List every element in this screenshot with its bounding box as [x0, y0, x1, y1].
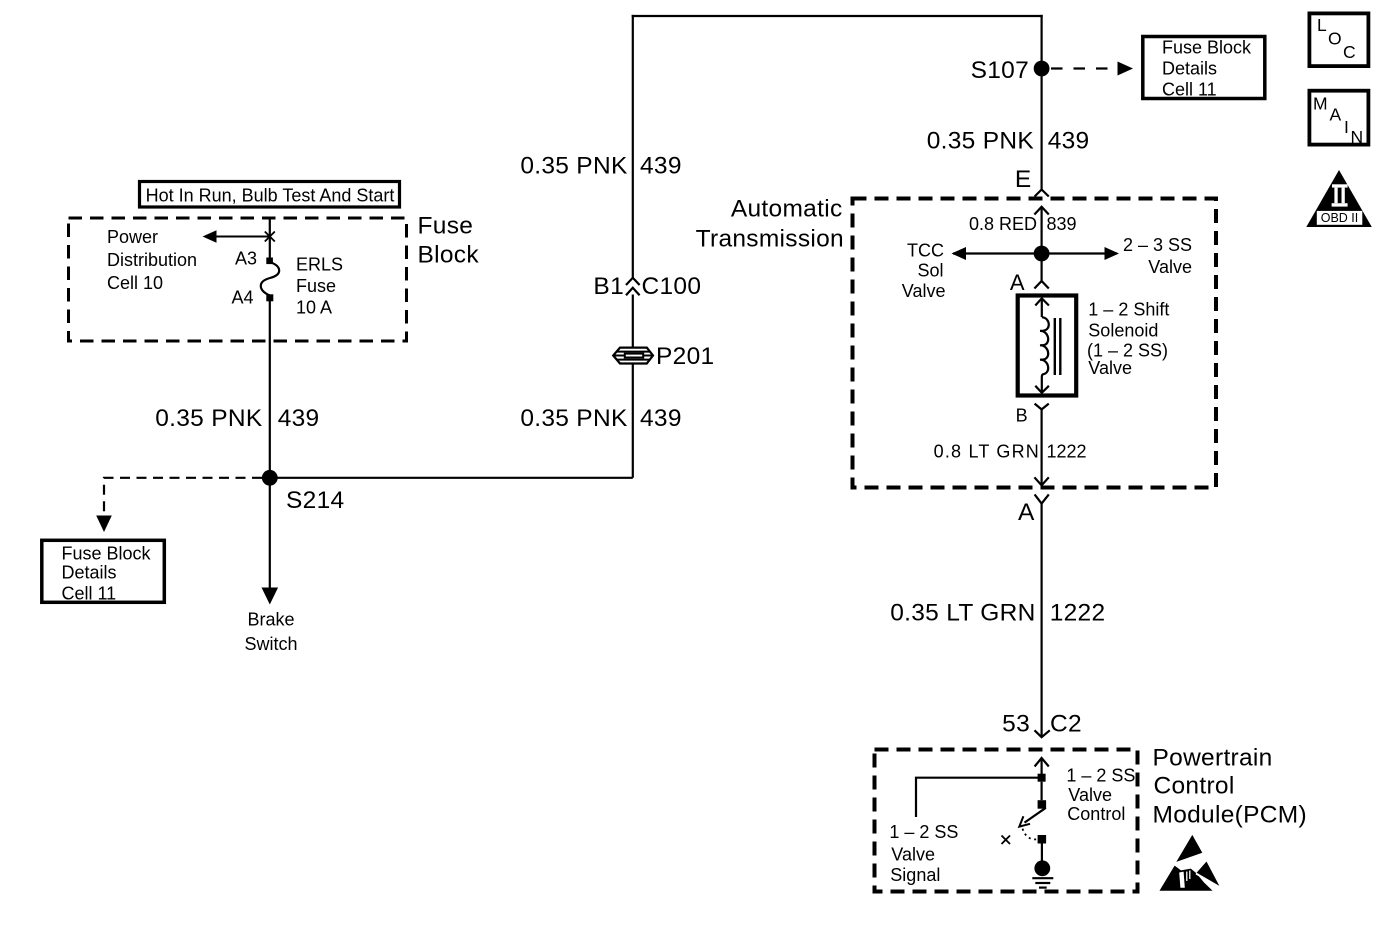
dashed arrow S107 to fuse block details	[1051, 62, 1133, 76]
middle riser wire upper segment	[632, 15, 634, 278]
switch travel dotted arc	[1023, 829, 1038, 840]
automatic transmission label	[696, 196, 844, 253]
PCM dashed box	[875, 750, 1138, 892]
svg-text:Fuse: Fuse	[418, 213, 474, 240]
svg-text:439: 439	[1048, 128, 1090, 155]
svg-text:Transmission: Transmission	[696, 226, 844, 253]
wire label 0.35 PNK 439 (left)	[155, 405, 319, 432]
svg-text:1222: 1222	[1050, 600, 1106, 627]
power distribution reference text	[107, 227, 197, 293]
svg-text:A4: A4	[231, 288, 253, 308]
arrow to TCC Sol Valve	[902, 241, 1042, 302]
svg-text:439: 439	[640, 405, 682, 432]
svg-text:S107: S107	[971, 57, 1029, 84]
switch terminal lower	[1038, 835, 1047, 844]
terminal A (transmission exit)	[1018, 494, 1049, 526]
connector C100 chevrons	[593, 273, 701, 300]
wire S214 down to brake switch	[262, 485, 279, 605]
svg-text:Valve: Valve	[1068, 785, 1112, 805]
svg-text:Valve: Valve	[1148, 257, 1192, 277]
solenoid box 1-2 shift solenoid	[1018, 296, 1076, 396]
wire from fuse block top to fuse terminal A3	[269, 218, 271, 259]
1-2 SS valve control label	[1066, 766, 1135, 825]
svg-text:S214: S214	[286, 487, 344, 514]
brake switch label	[244, 610, 297, 655]
svg-text:0.35 PNK: 0.35 PNK	[520, 405, 628, 432]
top horizontal wire	[632, 15, 1043, 17]
fuse block label	[418, 213, 480, 269]
splice S214	[262, 470, 345, 514]
svg-text:0.35 PNK: 0.35 PNK	[520, 153, 628, 180]
grommet P201	[613, 343, 714, 370]
LOC icon	[1309, 13, 1368, 66]
svg-text:Cell 11: Cell 11	[1162, 80, 1217, 100]
wire A to PCM	[1040, 504, 1042, 737]
svg-text:Solenoid: Solenoid	[1088, 321, 1158, 341]
ground	[1032, 860, 1053, 887]
svg-text:Signal: Signal	[890, 865, 940, 885]
svg-text:Valve: Valve	[1088, 358, 1132, 378]
svg-text:B1: B1	[593, 273, 624, 300]
switch open contact x	[1002, 836, 1011, 845]
svg-text:C2: C2	[1050, 711, 1082, 738]
svg-text:439: 439	[640, 153, 682, 180]
middle riser wire between C100 and P201	[632, 295, 634, 348]
svg-text:Module(PCM): Module(PCM)	[1153, 802, 1307, 829]
svg-text:1222: 1222	[1047, 442, 1087, 462]
power distribution arrow	[203, 230, 275, 242]
terminal E	[1015, 166, 1049, 197]
terminal A4	[231, 288, 273, 308]
svg-text:A: A	[1018, 499, 1035, 526]
svg-text:Switch: Switch	[244, 634, 297, 654]
svg-text:0.8 LT GRN: 0.8 LT GRN	[934, 442, 1040, 462]
svg-text:A: A	[1010, 270, 1025, 295]
wire label 0.8 RED 839	[969, 214, 1077, 234]
wire junction to terminal A	[1040, 254, 1042, 281]
svg-text:I: I	[1344, 117, 1349, 137]
svg-text:Control: Control	[1067, 804, 1125, 824]
svg-text:B: B	[1016, 406, 1028, 426]
svg-text:M: M	[1313, 94, 1328, 114]
wire fuse A4 to splice S214	[269, 301, 271, 478]
svg-text:OBD II: OBD II	[1321, 211, 1359, 225]
svg-text:Fuse Block: Fuse Block	[62, 544, 152, 564]
fuse block dashed box	[69, 218, 407, 341]
fuse block details box (left)	[42, 540, 165, 603]
splice S107	[971, 57, 1050, 84]
solenoid label	[1087, 300, 1169, 379]
svg-text:Hot In Run, Bulb Test And Star: Hot In Run, Bulb Test And Start	[146, 186, 395, 206]
svg-text:1 – 2 SS: 1 – 2 SS	[889, 822, 958, 842]
svg-text:N: N	[1351, 127, 1364, 147]
switch terminal upper	[1038, 800, 1047, 809]
wire label 0.35 PNK 439 (middle lower)	[520, 405, 681, 432]
svg-text:Details: Details	[1162, 59, 1217, 79]
svg-text:0.35 LT GRN: 0.35 LT GRN	[890, 600, 1035, 627]
powertrain control module label	[1153, 745, 1307, 829]
svg-text:Valve: Valve	[891, 845, 935, 865]
svg-text:Cell 11: Cell 11	[62, 584, 117, 604]
right riser wire	[1040, 15, 1042, 190]
svg-text:L: L	[1317, 15, 1327, 35]
svg-text:Block: Block	[418, 242, 480, 269]
svg-text:C100: C100	[642, 273, 702, 300]
svg-text:1 – 2 Shift: 1 – 2 Shift	[1088, 300, 1169, 320]
svg-text:Valve: Valve	[902, 281, 946, 301]
automatic transmission dashed box	[853, 199, 1217, 488]
fuse label ERLS Fuse 10 A	[296, 255, 343, 318]
terminal 53 C2	[1002, 711, 1082, 738]
solenoid coil	[1040, 317, 1049, 377]
OBD II icon	[1306, 170, 1372, 227]
svg-text:10 A: 10 A	[296, 298, 332, 318]
svg-text:439: 439	[278, 405, 320, 432]
svg-text:P201: P201	[656, 343, 714, 370]
ESD warning symbol	[1160, 835, 1221, 891]
svg-text:0.35 PNK: 0.35 PNK	[927, 128, 1035, 155]
svg-text:Sol: Sol	[917, 261, 943, 281]
fuse ERLS	[261, 262, 279, 296]
svg-text:TCC: TCC	[907, 241, 944, 261]
wire label 0.35 PNK 439 (right)	[927, 128, 1090, 155]
svg-text:53: 53	[1002, 711, 1030, 738]
dashed wire S214 to fuse block details	[96, 478, 262, 532]
svg-text:O: O	[1328, 29, 1342, 49]
arrow to 2-3 SS Valve	[1042, 235, 1192, 277]
svg-text:Distribution: Distribution	[107, 250, 197, 270]
svg-text:0.8 RED: 0.8 RED	[969, 214, 1037, 234]
svg-text:E: E	[1015, 166, 1032, 193]
MAIN icon	[1309, 91, 1368, 147]
wire to 1-2 SS valve signal	[889, 778, 1041, 885]
switch blade	[1019, 808, 1046, 827]
middle riser wire lower segment	[632, 365, 634, 478]
svg-text:839: 839	[1047, 214, 1077, 234]
svg-text:C: C	[1343, 42, 1356, 62]
wire label 0.35 LT GRN 1222	[890, 600, 1105, 627]
solenoid core lines	[1055, 318, 1061, 375]
svg-text:Fuse Block: Fuse Block	[1162, 38, 1252, 58]
title box Hot In Run, Bulb Test And Start	[140, 182, 400, 208]
solenoid up arrow	[1035, 298, 1049, 317]
svg-text:Brake: Brake	[247, 610, 294, 630]
terminal B	[1016, 404, 1049, 426]
svg-text:ERLS: ERLS	[296, 255, 343, 275]
solenoid down arrow	[1035, 377, 1049, 393]
svg-text:Powertrain: Powertrain	[1153, 745, 1273, 772]
svg-text:Details: Details	[62, 563, 117, 583]
wire label 0.8 LT GRN 1222	[934, 442, 1087, 462]
svg-text:Power: Power	[107, 227, 158, 247]
wire to ground	[1041, 844, 1043, 862]
wire label 0.35 PNK 439 (middle upper)	[520, 153, 681, 180]
switch wire	[1040, 782, 1042, 801]
terminal A (solenoid)	[1010, 270, 1049, 295]
svg-text:2 – 3 SS: 2 – 3 SS	[1123, 235, 1192, 255]
svg-text:A: A	[1330, 105, 1342, 125]
wire S214 to middle riser	[270, 477, 633, 479]
svg-text:Cell 10: Cell 10	[107, 273, 163, 293]
svg-text:Control: Control	[1154, 773, 1235, 800]
wire up arrow into terminal E	[1034, 207, 1048, 254]
svg-text:1 – 2 SS: 1 – 2 SS	[1066, 766, 1135, 786]
svg-text:A3: A3	[235, 249, 257, 269]
svg-text:Fuse: Fuse	[296, 276, 336, 296]
svg-text:Automatic: Automatic	[731, 196, 843, 223]
fuse block details box (right)	[1143, 37, 1265, 100]
PCM junction node	[1038, 774, 1046, 782]
svg-text:0.35 PNK: 0.35 PNK	[155, 405, 263, 432]
terminal A3	[235, 249, 273, 269]
PCM up arrow	[1035, 758, 1049, 778]
junction node inside transmission	[1034, 246, 1050, 262]
wire B to box edge	[1034, 409, 1048, 485]
